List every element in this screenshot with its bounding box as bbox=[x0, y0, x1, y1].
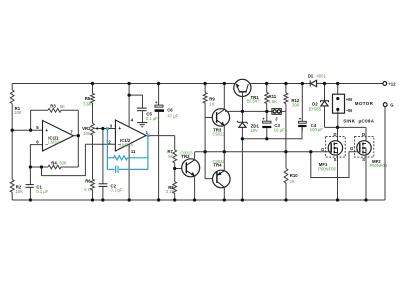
svg-text:BY955: BY955 bbox=[309, 106, 322, 111]
wire gate detour to MF2 bbox=[311, 152, 360, 178]
resistor R12 bbox=[284, 84, 300, 152]
resistor cyan feedback bbox=[107, 156, 147, 160]
wire cyan feedback right leg bbox=[147, 136, 149, 170]
node cyan pin3 bbox=[106, 127, 109, 130]
svg-text:1K: 1K bbox=[209, 102, 214, 107]
svg-text:10V: 10V bbox=[250, 128, 258, 133]
transistor TR1 bbox=[234, 79, 260, 111]
svg-text:R3: R3 bbox=[50, 104, 56, 109]
wire bottom ground rail bbox=[12, 199, 385, 201]
wire R3-R4 vertical to output bbox=[77, 110, 79, 167]
svg-text:R4: R4 bbox=[51, 160, 57, 165]
node cyan output bbox=[147, 134, 150, 137]
potentiometer VR2 bbox=[82, 123, 103, 136]
transistor TR2 bbox=[180, 151, 200, 200]
resistor R9 bbox=[203, 84, 215, 118]
capacitor C3 electrolytic bbox=[262, 111, 285, 138]
wire TR3 collector bbox=[223, 84, 225, 110]
wire zener ground leg bbox=[241, 139, 243, 200]
svg-text:2.2K: 2.2K bbox=[166, 189, 175, 194]
terminal +12 bbox=[383, 81, 396, 86]
wire pin4 supply bbox=[128, 84, 130, 127]
svg-text:+: + bbox=[155, 100, 158, 105]
wire pin11 ground bbox=[128, 144, 130, 200]
junction dots internal nodes bbox=[11, 93, 340, 170]
svg-text:100 µF: 100 µF bbox=[310, 127, 324, 132]
wire gate MF1 bbox=[311, 151, 331, 153]
resistor R2 bbox=[10, 130, 23, 200]
wire pin5 input net bbox=[12, 129, 42, 131]
junction dots bottom rail bbox=[29, 198, 368, 201]
svg-text:TR2: TR2 bbox=[181, 154, 190, 159]
wire oscillator to pin2 of IC1/2 bbox=[42, 144, 116, 175]
connector MOTOR bbox=[333, 84, 375, 128]
svg-text:S: S bbox=[362, 157, 365, 162]
wire TR3 emitter to TR4 emitter bbox=[223, 125, 225, 170]
svg-text:C9013: C9013 bbox=[213, 132, 226, 137]
svg-text:D: D bbox=[333, 132, 336, 137]
resistor R6 bbox=[84, 179, 95, 200]
svg-text:5K: 5K bbox=[60, 104, 65, 109]
svg-text:5K: 5K bbox=[168, 154, 173, 159]
svg-text:+: + bbox=[262, 116, 265, 121]
svg-text:MOTOR: MOTOR bbox=[355, 101, 374, 106]
op-amp U1a IC1/1 bbox=[36, 121, 78, 152]
capacitor cyan feedback bbox=[107, 166, 147, 173]
svg-text:50K: 50K bbox=[59, 161, 67, 166]
svg-text:SINK µC09A: SINK µC09A bbox=[343, 119, 375, 124]
mosfet MF2 bbox=[350, 127, 388, 200]
capacitor C1 bbox=[26, 167, 49, 200]
svg-text:D1: D1 bbox=[308, 73, 314, 78]
capacitor C4 electrolytic bbox=[298, 84, 323, 133]
capacitor C5 bbox=[129, 95, 158, 123]
jumper J bbox=[272, 109, 286, 122]
resistor R10 bbox=[284, 152, 298, 200]
resistor R8 bbox=[166, 169, 177, 201]
resistor R4 feedback bbox=[30, 160, 78, 169]
wire top supply rail (right section D1 to +12 terminal) bbox=[316, 83, 383, 85]
svg-text:+: + bbox=[299, 117, 302, 122]
resistor R7 bbox=[167, 136, 176, 169]
resistor R1 bbox=[10, 84, 22, 131]
capacitor C2 bbox=[99, 129, 123, 201]
resistor R5 bbox=[83, 84, 94, 124]
svg-text:D: D bbox=[362, 132, 365, 137]
capacitor C6 electrolytic bbox=[155, 84, 179, 201]
svg-text:1K: 1K bbox=[290, 179, 295, 184]
svg-text:0.1 µF: 0.1 µF bbox=[36, 189, 48, 194]
svg-text:5.6K: 5.6K bbox=[83, 101, 92, 106]
wire wiper to pin3 of IC1/2 bbox=[103, 128, 116, 130]
zener diode ZD1 bbox=[237, 111, 260, 138]
svg-text:+: + bbox=[118, 126, 121, 132]
wire motor drain line bbox=[325, 126, 366, 128]
svg-text:10K: 10K bbox=[14, 110, 22, 115]
svg-text:P60NF06: P60NF06 bbox=[318, 166, 336, 171]
wire TR3 TR4 base link bbox=[205, 118, 213, 179]
transistor TR4 bbox=[212, 159, 230, 200]
svg-text:47 µF: 47 µF bbox=[167, 113, 178, 118]
junction dots top rail bbox=[91, 82, 340, 85]
svg-text:+: + bbox=[45, 128, 48, 134]
ground symbol for C5 bbox=[137, 123, 147, 127]
wire driver line2 bbox=[195, 151, 311, 153]
svg-text:10K: 10K bbox=[15, 189, 23, 194]
op-amp U1b IC1/2 bbox=[108, 117, 148, 153]
diode D1 bbox=[308, 73, 327, 86]
svg-text:LM324: LM324 bbox=[120, 142, 133, 147]
svg-text:R10: R10 bbox=[290, 173, 298, 178]
svg-text:R5: R5 bbox=[85, 96, 91, 101]
svg-text:LM324: LM324 bbox=[48, 140, 61, 145]
wire pin6 to feedback node bbox=[30, 145, 42, 167]
wire top supply rail (left regulated section) bbox=[12, 83, 236, 85]
wire IC1/2 output bbox=[146, 135, 175, 137]
wire cyan feedback left leg bbox=[106, 129, 108, 170]
svg-text:−M: −M bbox=[346, 108, 353, 113]
svg-text:+M: +M bbox=[346, 97, 353, 102]
svg-text:0.1 µF: 0.1 µF bbox=[111, 188, 123, 193]
diode D2 bbox=[309, 84, 329, 128]
resistor R11 bbox=[265, 84, 277, 112]
svg-text:1.5K: 1.5K bbox=[268, 99, 277, 104]
svg-text:+12: +12 bbox=[388, 81, 396, 86]
svg-text:11: 11 bbox=[131, 149, 136, 154]
wire VR2 to R6 bbox=[92, 135, 94, 179]
svg-text:10 µF: 10 µF bbox=[274, 127, 285, 132]
svg-text:TR4: TR4 bbox=[213, 162, 222, 167]
wire regulator base node bbox=[225, 110, 272, 112]
mosfet MF1 bbox=[318, 127, 345, 200]
wire filter ground line1 bbox=[242, 127, 302, 139]
wire TR2 base bbox=[175, 168, 182, 170]
resistor R3 feedback bbox=[31, 104, 79, 131]
svg-text:4001: 4001 bbox=[317, 74, 327, 79]
svg-text:BC547: BC547 bbox=[247, 98, 260, 103]
svg-text:S: S bbox=[334, 157, 337, 162]
svg-text:4.7K: 4.7K bbox=[84, 187, 93, 192]
transistor TR3 bbox=[205, 109, 229, 137]
svg-text:300: 300 bbox=[292, 102, 300, 107]
svg-text:C6: C6 bbox=[167, 108, 173, 113]
svg-text:0.1 µF: 0.1 µF bbox=[146, 116, 158, 121]
terminal G ground bbox=[383, 102, 394, 200]
wire top supply rail (middle section TR1 to D1) bbox=[248, 83, 310, 85]
svg-text:10K: 10K bbox=[83, 131, 91, 136]
svg-text:R6: R6 bbox=[85, 179, 91, 184]
